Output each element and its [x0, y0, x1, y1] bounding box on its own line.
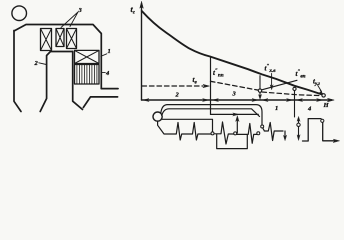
furnace left wall with hopper slant	[14, 31, 21, 112]
node circle on downcomer	[261, 125, 264, 128]
platen superheater rect C with X	[67, 29, 77, 49]
dashed air line to flue node	[262, 92, 322, 96]
arrowhead of saturation line	[203, 84, 209, 87]
node circle 1	[258, 89, 261, 92]
svg-text:Н: Н	[323, 102, 330, 109]
gas temperature curve	[142, 11, 323, 95]
boiler outline: left wall, roof, right chamfer	[14, 25, 101, 89]
meander exit arrowhead	[333, 139, 339, 142]
steam offtake arrow up	[236, 119, 238, 133]
leader line for label 4	[101, 71, 105, 73]
node circle before steam offtake	[234, 132, 237, 135]
drum of below-axis scheme	[153, 112, 162, 121]
leader line for label 1	[101, 54, 107, 57]
leader lines for label 3	[61, 12, 78, 28]
furnace right wall with hopper slant	[40, 52, 72, 112]
node circle 2 on curve	[293, 87, 296, 90]
convective shaft left wall with hopper	[73, 52, 83, 110]
platen superheater rect A with X	[41, 29, 52, 51]
drum circle (left boiler schematic)	[12, 6, 27, 21]
dashed steam temperature line to node 1	[211, 81, 259, 90]
dropline at superheater boundary	[210, 57, 212, 115]
steam pipe with arrow	[211, 113, 259, 115]
graph x-axis	[142, 99, 332, 101]
economizer coil trace	[264, 123, 283, 141]
node circle on pipe	[211, 132, 214, 135]
gas exit duct lower line	[83, 97, 117, 108]
vertical from curve to node 1	[259, 76, 261, 89]
arrow from t_у.г label to node 3	[318, 86, 322, 92]
graph y-axis	[141, 7, 143, 100]
dropline from node 2 crossing axis	[294, 91, 296, 118]
air flow marker: circle with up and down arrows	[297, 123, 300, 126]
pipe from drum to first surface	[162, 119, 212, 131]
leader line for label 2	[39, 63, 47, 65]
thin rising air line	[262, 80, 297, 90]
node circle on meander	[321, 119, 324, 122]
air preheater rect 4 with vertical hatching	[75, 65, 100, 85]
node circle 3 flue gas	[322, 94, 325, 97]
steam pipe upper from drum	[161, 105, 262, 125]
y-axis arrowhead	[140, 2, 143, 9]
x-axis end arrowhead	[328, 98, 335, 101]
node circle	[257, 132, 260, 135]
dashed saturation temperature line	[142, 85, 203, 87]
bypass loop below trace	[217, 135, 248, 149]
arrow from node 1 down to axis	[259, 93, 261, 96]
small down arrow after economizer	[284, 131, 286, 138]
platen superheater rect B with X	[56, 29, 64, 47]
steam pipe second from drum	[162, 109, 260, 117]
svg-text:1: 1	[108, 48, 111, 55]
gas exit duct upper line	[101, 88, 118, 90]
trace continues	[237, 124, 257, 144]
heating surface trace with coil spikes	[158, 121, 211, 140]
economizer rect 1 with X	[75, 50, 100, 63]
svg-text:1: 1	[275, 105, 278, 112]
axis dimension arrowheads	[143, 99, 149, 102]
arrow from t_х.в label down across curve	[271, 74, 273, 87]
air preheater meander	[303, 119, 336, 141]
